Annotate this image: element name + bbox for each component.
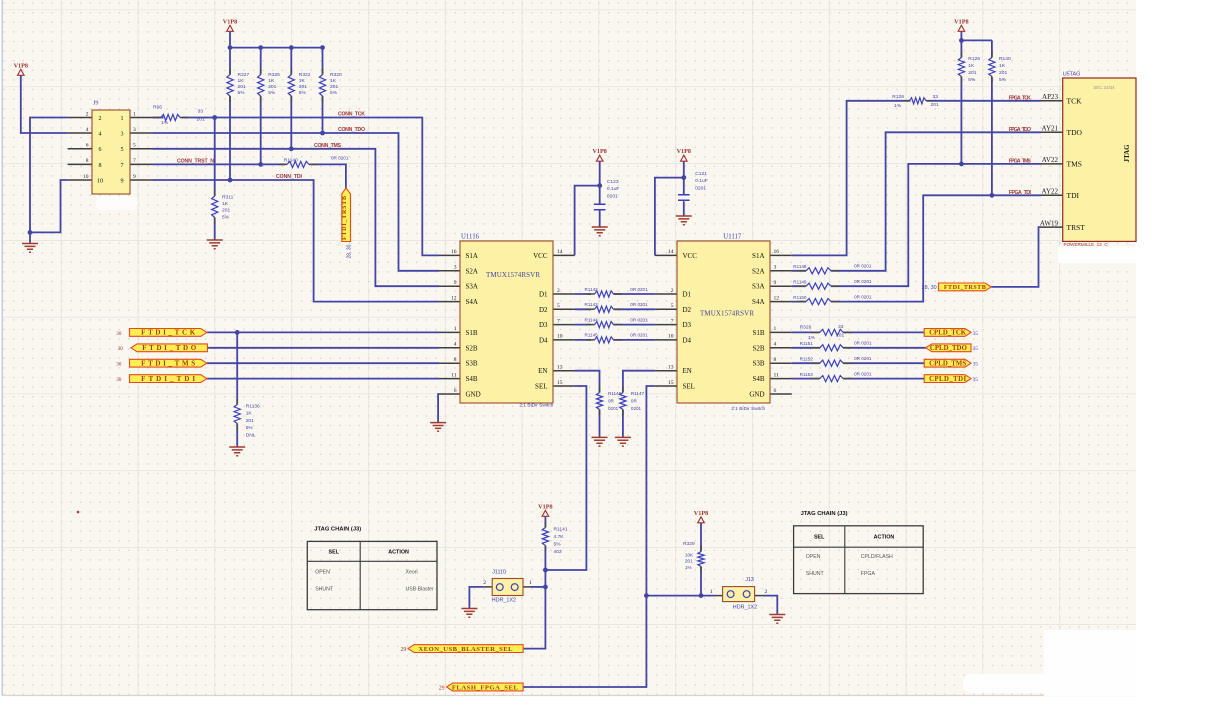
svg-text:R329: R329 (683, 541, 695, 547)
svg-text:CONN_TCK: CONN_TCK (338, 112, 365, 118)
svg-text:FTDI_TMS: FTDI_TMS (141, 360, 195, 368)
svg-text:V1P8: V1P8 (538, 503, 552, 510)
svg-text:10: 10 (83, 174, 89, 180)
svg-text:35: 35 (973, 362, 979, 368)
svg-text:D4: D4 (539, 336, 548, 344)
svg-text:1%: 1% (894, 103, 902, 109)
svg-text:0R 0201: 0R 0201 (854, 356, 872, 361)
svg-text:CPLD_TMS: CPLD_TMS (929, 361, 966, 368)
svg-text:DNL: DNL (246, 432, 256, 438)
svg-text:15: 15 (668, 380, 674, 386)
svg-text:10K: 10K (685, 553, 694, 558)
svg-text:AW19: AW19 (1040, 219, 1059, 227)
svg-text:TCK: TCK (1067, 97, 1083, 106)
svg-text:U1117: U1117 (723, 234, 742, 241)
svg-text:35: 35 (973, 346, 979, 352)
svg-text:2: 2 (86, 111, 89, 117)
svg-text:R126: R126 (968, 56, 980, 62)
svg-text:1K: 1K (222, 201, 229, 207)
svg-text:1%: 1% (161, 120, 169, 126)
svg-text:C121: C121 (695, 171, 707, 177)
svg-text:1%: 1% (808, 335, 816, 341)
svg-text:USB Blaster: USB Blaster (406, 587, 435, 593)
svg-text:FPGA_TDI: FPGA_TDI (1009, 190, 1032, 196)
svg-text:6: 6 (774, 388, 777, 394)
svg-text:8: 8 (86, 158, 89, 164)
svg-text:AV22: AV22 (1042, 156, 1059, 164)
svg-text:SEL: SEL (329, 549, 340, 555)
svg-text:JTAG: JTAG (1124, 144, 1131, 163)
svg-text:12: 12 (451, 295, 457, 301)
svg-text:V1P8: V1P8 (592, 148, 606, 155)
svg-text:1: 1 (454, 326, 457, 332)
svg-text:201: 201 (999, 70, 1007, 76)
svg-text:R311: R311 (222, 195, 234, 201)
svg-text:1K: 1K (299, 78, 306, 84)
svg-text:JTAG CHAIN (J3): JTAG CHAIN (J3) (801, 511, 848, 517)
svg-text:14: 14 (668, 249, 674, 255)
svg-text:OPEN: OPEN (315, 570, 330, 576)
svg-text:S1B: S1B (752, 329, 764, 337)
svg-text:TMUX1574RSVR: TMUX1574RSVR (700, 310, 754, 318)
svg-text:EN: EN (538, 367, 547, 375)
svg-text:28, 30: 28, 30 (346, 244, 352, 258)
svg-text:8: 8 (99, 163, 102, 169)
svg-text:30: 30 (116, 331, 122, 337)
svg-text:SHUNT: SHUNT (806, 571, 825, 577)
svg-text:5%: 5% (999, 77, 1007, 83)
svg-text:R1142: R1142 (585, 287, 599, 292)
svg-text:S2B: S2B (466, 344, 478, 352)
svg-text:R1151: R1151 (800, 341, 814, 346)
svg-text:5: 5 (671, 303, 674, 309)
svg-text:0R 0201: 0R 0201 (854, 341, 872, 346)
svg-text:2:1 BiDir Switch: 2:1 BiDir Switch (519, 403, 553, 409)
svg-text:R140: R140 (999, 56, 1011, 62)
svg-text:7: 7 (133, 158, 136, 164)
svg-text:4: 4 (86, 127, 89, 133)
svg-text:S3B: S3B (752, 360, 764, 368)
svg-text:14: 14 (557, 249, 563, 255)
svg-text:6: 6 (99, 147, 102, 153)
svg-text:201: 201 (238, 84, 246, 90)
svg-text:AY21: AY21 (1042, 125, 1059, 133)
svg-text:2: 2 (765, 589, 768, 595)
svg-text:C123: C123 (607, 179, 619, 185)
svg-text:16: 16 (774, 249, 780, 255)
svg-text:3: 3 (121, 131, 124, 137)
svg-text:AY22: AY22 (1042, 188, 1059, 196)
svg-text:5%: 5% (330, 90, 338, 96)
svg-text:JTAG CHAIN (J3): JTAG CHAIN (J3) (314, 527, 361, 533)
svg-text:V1P8: V1P8 (677, 148, 691, 155)
svg-text:4: 4 (774, 342, 777, 348)
svg-text:S3A: S3A (752, 283, 764, 291)
svg-text:VCC: VCC (683, 252, 698, 260)
svg-text:R1150: R1150 (793, 295, 807, 300)
svg-text:V1P8: V1P8 (223, 18, 237, 25)
svg-text:3: 3 (454, 265, 457, 271)
svg-text:0R 0201: 0R 0201 (854, 294, 872, 299)
svg-text:1: 1 (529, 580, 532, 586)
svg-text:8: 8 (774, 357, 777, 363)
svg-text:2:1 BiDir Switch: 2:1 BiDir Switch (731, 406, 765, 412)
svg-text:R325: R325 (268, 72, 280, 78)
svg-text:2: 2 (483, 580, 486, 586)
svg-text:J13: J13 (745, 577, 754, 583)
svg-text:5%: 5% (222, 214, 230, 220)
svg-text:GND: GND (749, 391, 764, 399)
svg-text:30: 30 (116, 362, 122, 368)
svg-text:R1141: R1141 (554, 527, 568, 533)
svg-text:201: 201 (836, 333, 844, 339)
svg-text:13: 13 (668, 365, 674, 371)
svg-text:201: 201 (968, 70, 976, 76)
svg-text:CONN_TDO: CONN_TDO (338, 127, 365, 133)
svg-text:R1153: R1153 (800, 372, 814, 377)
svg-text:15: 15 (557, 380, 563, 386)
svg-text:S4B: S4B (466, 375, 478, 383)
svg-text:ACTION: ACTION (388, 549, 409, 555)
svg-text:FTDI_TRSTB: FTDI_TRSTB (944, 284, 986, 291)
svg-text:13: 13 (557, 365, 563, 371)
svg-text:OPEN: OPEN (806, 554, 821, 560)
svg-text:SEL: SEL (814, 535, 825, 541)
svg-text:29: 29 (439, 685, 445, 691)
svg-text:R1140: R1140 (284, 157, 298, 163)
svg-text:TDO: TDO (1067, 128, 1083, 137)
svg-text:1K: 1K (268, 78, 275, 84)
svg-text:10: 10 (668, 334, 674, 340)
svg-text:R66: R66 (153, 105, 162, 111)
svg-text:0R: 0R (608, 399, 615, 404)
svg-text:0R: 0R (631, 399, 638, 404)
svg-text:D2: D2 (683, 306, 692, 314)
svg-text:S4A: S4A (466, 298, 478, 306)
svg-text:201: 201 (268, 84, 276, 90)
svg-text:201: 201 (222, 208, 230, 214)
svg-text:CPLD/FLASH: CPLD/FLASH (861, 554, 893, 560)
svg-text:5%: 5% (238, 90, 246, 96)
svg-text:S2B: S2B (752, 344, 764, 352)
svg-text:35: 35 (973, 377, 979, 383)
svg-text:10: 10 (97, 178, 103, 184)
svg-text:V1P8: V1P8 (954, 18, 968, 25)
svg-text:5%: 5% (246, 425, 254, 431)
svg-text:FPGA: FPGA (861, 571, 876, 577)
svg-text:S4A: S4A (752, 298, 764, 306)
svg-text:1K: 1K (330, 78, 337, 84)
svg-text:7: 7 (121, 163, 124, 169)
svg-text:HDR_1X2: HDR_1X2 (733, 605, 757, 611)
svg-text:D2: D2 (539, 306, 548, 314)
svg-text:2: 2 (557, 288, 560, 294)
svg-text:5%: 5% (554, 542, 562, 548)
svg-text:FLASH_FPGA_SEL: FLASH_FPGA_SEL (452, 684, 519, 691)
svg-text:CONN_TMS: CONN_TMS (314, 143, 342, 149)
svg-text:CPLD_TDI: CPLD_TDI (929, 376, 966, 383)
svg-text:R322: R322 (299, 72, 311, 78)
svg-text:FPGA_TCK: FPGA_TCK (1009, 95, 1031, 101)
svg-text:HDR_1X2: HDR_1X2 (492, 598, 516, 604)
svg-text:1K: 1K (968, 63, 975, 69)
svg-text:TDI: TDI (1067, 191, 1080, 200)
svg-text:CONN_TRST_N: CONN_TRST_N (177, 159, 214, 165)
svg-text:0R 0201: 0R 0201 (854, 371, 872, 376)
svg-text:S1A: S1A (752, 252, 764, 260)
svg-text:0R 0201: 0R 0201 (630, 287, 648, 292)
svg-text:D3: D3 (539, 321, 548, 329)
svg-text:V1P8: V1P8 (694, 510, 708, 517)
svg-text:28, 30: 28, 30 (922, 285, 937, 291)
svg-text:12: 12 (774, 295, 780, 301)
svg-text:R320: R320 (330, 72, 342, 78)
svg-text:XEON_USB_BLASTER_SEL: XEON_USB_BLASTER_SEL (419, 646, 514, 653)
svg-text:1: 1 (774, 326, 777, 332)
svg-text:TMS: TMS (1067, 160, 1082, 169)
svg-text:SEL: SEL (683, 383, 695, 391)
svg-text:R1152: R1152 (800, 356, 814, 361)
svg-text:201: 201 (931, 102, 939, 108)
svg-text:U5TAG: U5TAG (1063, 72, 1081, 78)
svg-text:D1: D1 (539, 291, 548, 299)
svg-text:5: 5 (121, 147, 124, 153)
svg-text:SEL: SEL (535, 383, 547, 391)
svg-text:5: 5 (557, 303, 560, 309)
svg-text:201: 201 (197, 117, 205, 123)
svg-text:SEC 33/34: SEC 33/34 (1093, 85, 1115, 90)
svg-text:R1136: R1136 (246, 404, 260, 410)
svg-text:30: 30 (116, 377, 122, 383)
svg-text:R128: R128 (892, 94, 904, 100)
svg-text:D1: D1 (683, 291, 692, 299)
svg-text:V1P8: V1P8 (14, 62, 28, 69)
svg-text:Xeon: Xeon (406, 570, 418, 576)
svg-text:1: 1 (133, 111, 136, 117)
svg-text:2: 2 (99, 116, 102, 122)
svg-text:0R 0201: 0R 0201 (630, 333, 648, 338)
svg-text:35: 35 (973, 331, 979, 337)
svg-text:0201: 0201 (631, 406, 642, 411)
svg-text:TMUX1574RSVR: TMUX1574RSVR (486, 271, 540, 279)
svg-text:30: 30 (118, 346, 124, 352)
svg-text:EN: EN (683, 367, 692, 375)
svg-text:33: 33 (198, 109, 204, 115)
svg-text:201: 201 (299, 84, 307, 90)
svg-text:9: 9 (454, 280, 457, 286)
svg-text:0R 0201: 0R 0201 (630, 317, 648, 322)
svg-text:4: 4 (99, 131, 102, 137)
svg-text:0201: 0201 (695, 185, 706, 191)
svg-text:S2A: S2A (466, 267, 478, 275)
svg-text:CONN_TDI: CONN_TDI (276, 174, 303, 180)
svg-text:S4B: S4B (752, 375, 764, 383)
svg-text:33: 33 (838, 324, 844, 330)
svg-text:D3: D3 (683, 321, 692, 329)
svg-text:R327: R327 (238, 72, 250, 78)
svg-text:R1145: R1145 (585, 333, 599, 338)
svg-text:1K: 1K (238, 78, 245, 84)
svg-text:9: 9 (133, 174, 136, 180)
svg-text:3: 3 (774, 265, 777, 271)
svg-text:11: 11 (774, 372, 780, 378)
svg-text:FPGA_TMS: FPGA_TMS (1009, 158, 1032, 164)
svg-text:7: 7 (671, 318, 674, 324)
svg-text:FTDI_TRSTB: FTDI_TRSTB (342, 196, 348, 240)
svg-text:0R 0201: 0R 0201 (854, 279, 872, 284)
svg-text:0.1uF: 0.1uF (695, 178, 708, 184)
svg-text:R1143: R1143 (585, 302, 599, 307)
svg-text:R326: R326 (800, 325, 812, 331)
svg-text:J1110: J1110 (492, 570, 506, 576)
svg-text:4: 4 (454, 342, 457, 348)
svg-text:POWERMILLE_12_C: POWERMILLE_12_C (1064, 242, 1109, 247)
svg-text:3: 3 (133, 127, 136, 133)
svg-text:6: 6 (86, 143, 89, 149)
svg-text:5%: 5% (268, 90, 276, 96)
svg-text:9: 9 (774, 280, 777, 286)
svg-text:8: 8 (454, 357, 457, 363)
svg-text:S1A: S1A (466, 252, 478, 260)
svg-text:CPLD_TDO: CPLD_TDO (930, 345, 967, 352)
svg-text:0.1uF: 0.1uF (607, 186, 620, 192)
svg-text:1K: 1K (999, 63, 1006, 69)
svg-text:U1116: U1116 (461, 234, 480, 241)
svg-text:201: 201 (246, 418, 254, 424)
svg-text:0R 0201: 0R 0201 (331, 155, 349, 160)
svg-text:S3B: S3B (466, 360, 478, 368)
svg-text:1: 1 (710, 589, 713, 595)
svg-text:R1146: R1146 (608, 391, 622, 396)
svg-text:9: 9 (121, 178, 124, 184)
svg-text:16: 16 (451, 249, 457, 255)
svg-text:29: 29 (401, 647, 407, 653)
svg-text:J9: J9 (93, 100, 99, 107)
svg-text:SHUNT: SHUNT (315, 587, 334, 593)
svg-text:ACTION: ACTION (874, 535, 895, 541)
svg-text:2: 2 (671, 288, 674, 294)
svg-text:7: 7 (557, 318, 560, 324)
svg-text:201: 201 (685, 559, 693, 564)
svg-text:CPLD_TCK: CPLD_TCK (929, 330, 967, 337)
svg-text:0R 0201: 0R 0201 (854, 264, 872, 269)
svg-text:1: 1 (121, 116, 124, 122)
svg-text:0201: 0201 (608, 406, 619, 411)
svg-text:33: 33 (933, 94, 939, 100)
svg-text:D4: D4 (683, 336, 692, 344)
svg-text:S3A: S3A (466, 283, 478, 291)
svg-text:0201: 0201 (607, 193, 618, 199)
svg-text:5: 5 (133, 143, 136, 149)
svg-text:1K: 1K (246, 411, 253, 417)
svg-text:AP23: AP23 (1042, 93, 1058, 101)
svg-text:TRST: TRST (1067, 223, 1086, 232)
svg-text:R1147: R1147 (631, 391, 645, 396)
svg-text:VCC: VCC (533, 252, 548, 260)
svg-text:R1149: R1149 (793, 279, 807, 284)
svg-text:6: 6 (454, 388, 457, 394)
svg-text:S2A: S2A (752, 267, 764, 275)
svg-text:402: 402 (554, 549, 562, 555)
svg-text:5%: 5% (968, 77, 976, 83)
svg-text:R1148: R1148 (793, 264, 807, 269)
svg-text:R1144: R1144 (585, 317, 599, 322)
svg-text:11: 11 (451, 372, 457, 378)
svg-text:5%: 5% (299, 90, 307, 96)
svg-text:S1B: S1B (466, 329, 478, 337)
svg-text:FPGA_TDO: FPGA_TDO (1009, 127, 1031, 133)
svg-text:201: 201 (330, 84, 338, 90)
svg-text:10: 10 (557, 334, 563, 340)
svg-text:GND: GND (466, 391, 481, 399)
svg-text:1%: 1% (685, 565, 692, 570)
svg-text:4.7K: 4.7K (554, 534, 565, 540)
svg-text:0R 0201: 0R 0201 (630, 302, 648, 307)
